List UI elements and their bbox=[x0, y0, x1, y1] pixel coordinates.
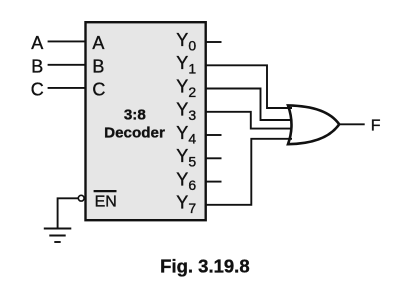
pin label EN with overbar bbox=[94, 191, 117, 211]
svg-text:A: A bbox=[92, 33, 104, 53]
wire output F bbox=[340, 123, 365, 125]
EN inversion bubble bbox=[78, 195, 84, 201]
wire Y5 stub bbox=[206, 157, 222, 159]
svg-text:F: F bbox=[371, 118, 381, 135]
svg-text:C: C bbox=[31, 80, 44, 100]
svg-text:Decoder: Decoder bbox=[104, 125, 165, 142]
wire Y0 stub bbox=[206, 41, 222, 43]
wire input C bbox=[48, 87, 86, 89]
wire Y4 stub bbox=[206, 134, 222, 136]
wire Y2 to OR input 2 bbox=[206, 89, 292, 121]
svg-text:B: B bbox=[92, 57, 104, 77]
wire Y3 to OR input 3 bbox=[206, 112, 292, 129]
or-gate U2 bbox=[288, 105, 339, 144]
svg-text:C: C bbox=[92, 80, 105, 100]
svg-text:EN: EN bbox=[95, 194, 117, 211]
wire Y6 stub bbox=[206, 181, 222, 183]
svg-text:B: B bbox=[31, 57, 43, 77]
wire Y1 to OR input 1 bbox=[206, 65, 292, 108]
wire input B bbox=[48, 64, 86, 66]
svg-text:Fig. 3.19.8: Fig. 3.19.8 bbox=[160, 256, 249, 277]
ground bbox=[44, 229, 72, 243]
wire input A bbox=[48, 40, 86, 42]
svg-text:A: A bbox=[31, 33, 43, 53]
decoder U1 body bbox=[86, 22, 206, 220]
svg-text:3:8: 3:8 bbox=[124, 107, 146, 124]
wire EN to ground bbox=[58, 198, 79, 227]
wire Y7 to OR input 4 bbox=[206, 139, 292, 205]
label 3:8 Decoder bbox=[104, 107, 165, 142]
